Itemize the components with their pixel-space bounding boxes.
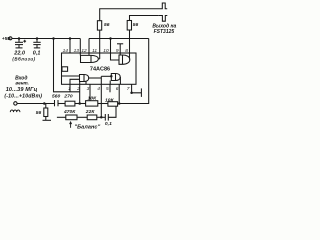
svg-text:10К: 10К	[88, 95, 98, 101]
svg-text:10: 10	[103, 48, 109, 54]
svg-text:14: 14	[63, 48, 69, 54]
svg-text:74AC86: 74AC86	[90, 67, 110, 73]
svg-text:270: 270	[63, 94, 73, 100]
svg-text:22К: 22К	[85, 109, 96, 115]
svg-text:56: 56	[36, 110, 42, 116]
svg-text:(-10...+10dBm): (-10...+10dBm)	[4, 94, 42, 100]
svg-text:7: 7	[127, 86, 130, 92]
svg-text:56: 56	[133, 22, 139, 28]
svg-text:(Вблизи): (Вблизи)	[12, 57, 35, 62]
svg-text:10...39 МГц: 10...39 МГц	[6, 87, 38, 93]
svg-text:560: 560	[52, 94, 61, 100]
svg-text:13: 13	[74, 48, 80, 54]
svg-text:0,1: 0,1	[105, 121, 112, 127]
svg-text:+5В: +5В	[2, 36, 11, 42]
svg-text:8: 8	[125, 48, 128, 54]
svg-text:470К: 470К	[63, 109, 76, 115]
svg-text:6: 6	[116, 86, 119, 92]
svg-text:0,1: 0,1	[33, 50, 41, 56]
svg-text:FST3125: FST3125	[154, 29, 175, 35]
svg-text:3: 3	[87, 86, 90, 92]
svg-text:вент.: вент.	[15, 81, 29, 86]
svg-text:2: 2	[76, 86, 80, 92]
svg-text:56: 56	[104, 22, 110, 28]
svg-text:4: 4	[97, 86, 100, 92]
svg-text:5: 5	[106, 86, 109, 92]
svg-text:"Баланс": "Баланс"	[74, 125, 100, 131]
svg-text:12: 12	[81, 48, 87, 54]
svg-text:10К: 10К	[105, 98, 115, 104]
svg-text:11: 11	[92, 48, 97, 54]
svg-text:9: 9	[116, 48, 119, 54]
svg-text:1: 1	[68, 86, 71, 92]
